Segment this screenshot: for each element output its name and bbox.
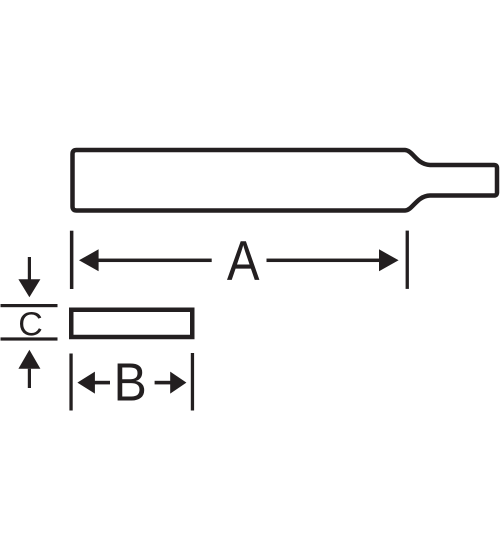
label A [227, 241, 259, 280]
dimension B right shaft [155, 381, 171, 385]
dimension C bottom tick [1, 337, 58, 340]
dimension C top tick [1, 304, 58, 307]
label B [118, 364, 145, 401]
dimension B right tick [191, 353, 194, 411]
dimension A right shaft [267, 259, 381, 263]
dimension A right arrowhead [379, 249, 399, 271]
dimension A left arrowhead [79, 249, 99, 271]
dimension C down arrow [18, 257, 40, 297]
dimension A left tick [70, 231, 74, 289]
dimension B left arrowhead [77, 372, 95, 394]
dimension C up arrow [18, 350, 40, 388]
dimension B right arrowhead [170, 372, 186, 394]
file body outline [73, 150, 498, 211]
dimension B left shaft [94, 381, 110, 385]
cross-section rectangle [71, 310, 192, 337]
label C [20, 312, 42, 336]
dimension A right tick [406, 231, 409, 289]
dimension B left tick [69, 354, 72, 411]
dimension A left shaft [97, 259, 212, 263]
